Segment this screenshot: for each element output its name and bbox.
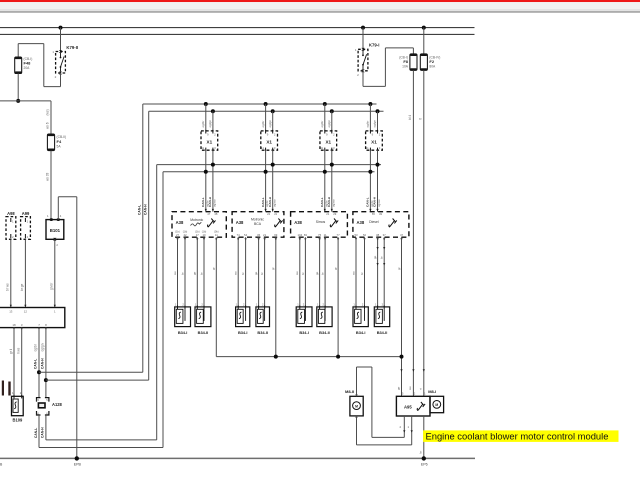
svg-text:A38: A38 — [357, 220, 365, 225]
svg-text:gr: gr — [212, 267, 216, 270]
svg-text:17: 17 — [196, 233, 200, 237]
node: bus tap for K79-II — [59, 26, 63, 30]
svg-text:CAN-L: CAN-L — [320, 197, 324, 207]
svg-text:og/br: og/br — [320, 121, 324, 128]
ground riser x=76.8 — [76, 197, 78, 459]
svg-text:A38: A38 — [176, 220, 184, 225]
svg-text:53: 53 — [354, 233, 358, 237]
wire horizontal feed y=101 — [0, 100, 51, 102]
svg-text:K79-II: K79-II — [66, 45, 78, 50]
svg-text:11: 11 — [261, 146, 264, 150]
svg-text:A38: A38 — [294, 220, 302, 225]
wire F2 down to A95 — [423, 70, 425, 396]
wire down to F4 — [50, 101, 52, 134]
svg-text:br: br — [360, 272, 364, 275]
svg-text:10A: 10A — [402, 65, 409, 69]
svg-text:CAN-H: CAN-H — [268, 196, 272, 207]
svg-text:11: 11 — [324, 233, 327, 237]
node bus tap K79-I — [361, 26, 365, 30]
wire to B34-II pin2 ch1 — [203, 237, 205, 307]
svg-text:og/sw: og/sw — [272, 199, 276, 207]
node rail1 tap ch3 — [323, 102, 327, 106]
svg-text:F4: F4 — [57, 139, 62, 144]
svg-text:ge: ge — [193, 271, 197, 275]
wire horizontal to riser — [44, 86, 61, 88]
node ch4 pin joins bus — [400, 355, 404, 359]
wire B101 pin2 down to module — [54, 239, 56, 307]
svg-text:Diesel: Diesel — [369, 220, 379, 224]
node CAN-L tap — [37, 370, 41, 374]
svg-text:11: 11 — [215, 233, 218, 237]
wire to B34-II pin1 ch1 — [196, 237, 198, 307]
svg-text:A128: A128 — [52, 402, 63, 407]
wires A38 outputs ch2 — [237, 238, 277, 241]
node rail3 tap ch2 — [271, 163, 275, 167]
svg-text:B109: B109 — [13, 418, 24, 423]
svg-text:ge: ge — [373, 255, 377, 259]
svg-text:B101: B101 — [50, 228, 61, 233]
wire rail1 to X1 ch2 — [265, 104, 267, 131]
svg-text:CAN-H: CAN-H — [208, 196, 212, 207]
wire K79-I out routing to F8 — [362, 71, 364, 87]
wire to B34-I pin1 ch1 — [177, 237, 179, 307]
svg-text:br ge: br ge — [20, 284, 24, 291]
glow plug B34-I ch2 — [236, 303, 250, 336]
svg-text:br: br — [260, 272, 264, 275]
svg-text:CAN-L: CAN-L — [137, 205, 141, 215]
wire A128 CAN-H down — [45, 415, 47, 440]
svg-text:br: br — [241, 272, 245, 275]
svg-text:M: M — [355, 404, 358, 408]
svg-text:gr: gr — [271, 267, 275, 270]
node rail1 tap ch4 — [368, 102, 372, 106]
node bus tap F2 — [422, 26, 426, 30]
fuse F2 — [420, 54, 440, 71]
wire to B34-I pin1 ch2 — [237, 237, 239, 307]
glow plug B34-I ch3 — [296, 303, 312, 336]
wire A128 CAN-L down — [38, 415, 40, 448]
svg-text:Simos: Simos — [316, 220, 326, 224]
wire A98 down — [10, 239, 12, 307]
arrows into A95 — [400, 369, 402, 372]
svg-text:77: 77 — [337, 233, 341, 237]
glow plug B34-II ch1 — [195, 303, 211, 336]
ECU A38 ch2 — [232, 212, 284, 238]
node rail3 tap ch1 — [211, 163, 215, 167]
svg-text:br: br — [380, 256, 384, 259]
wire down into F48 — [17, 44, 19, 57]
svg-text:21: 21 — [326, 212, 329, 216]
svg-text:42: 42 — [183, 233, 187, 237]
svg-text:og/sw: og/sw — [377, 199, 381, 207]
control module box (left, clipped) — [0, 305, 65, 331]
svg-text:rt: rt — [419, 388, 423, 390]
svg-text:br: br — [180, 272, 184, 275]
svg-text:80A: 80A — [429, 65, 436, 69]
CAN rail 2 (to X1 connectors) — [149, 110, 384, 112]
wire pin-x down ch1 — [215, 237, 217, 356]
wire to B34-I pin1 ch3 — [299, 237, 301, 307]
wire rail1 to X1 ch4 — [369, 104, 371, 131]
node rail3 tap ch4 — [376, 163, 380, 167]
blower motor M8-II — [345, 389, 363, 418]
svg-text:B34-II: B34-II — [377, 330, 388, 335]
wire A95 to ground — [423, 416, 425, 458]
CAN rail 4 (module side) — [163, 171, 375, 173]
svg-text:A99: A99 — [22, 211, 30, 216]
svg-text:B34-I: B34-I — [238, 330, 248, 335]
blower motor M8-I — [428, 389, 443, 412]
wire to B34-I pin1 ch4 — [355, 237, 357, 307]
svg-text:A98: A98 — [7, 211, 15, 216]
svg-text:104: 104 — [297, 233, 302, 237]
wire pin-x down ch2 — [275, 237, 277, 356]
svg-text:br: br — [321, 272, 325, 275]
svg-text:22: 22 — [267, 212, 270, 216]
svg-text:gr: gr — [397, 267, 401, 270]
svg-text:65: 65 — [372, 212, 375, 216]
svg-text:Engine coolant blower motor co: Engine coolant blower motor control modu… — [426, 431, 609, 442]
highlight label: Engine coolant blower motor control module — [423, 430, 618, 442]
svg-text:CAN-L: CAN-L — [201, 197, 205, 207]
svg-text:og/sw: og/sw — [213, 199, 217, 207]
svg-text:CAN-H: CAN-H — [327, 196, 331, 207]
node ch3 pin joins bus — [336, 355, 340, 359]
svg-text:X1: X1 — [207, 140, 213, 145]
wire CAN-H from module pin8 — [45, 328, 47, 398]
svg-text:X1: X1 — [325, 140, 331, 145]
sensor B109 — [12, 391, 24, 423]
node rail4 tap ch2 — [264, 170, 268, 174]
svg-text:ge: ge — [396, 386, 400, 390]
wire to B34-I pin2 ch1 — [184, 237, 186, 307]
node ground left — [75, 456, 79, 460]
wire F4 to B101 — [50, 151, 52, 220]
wire bus to relay K79-II — [60, 28, 62, 52]
svg-text:EPB: EPB — [74, 462, 82, 466]
wire M8-II return to A95 — [356, 416, 358, 445]
svg-text:Motronic: Motronic — [190, 218, 203, 222]
svg-text:21: 21 — [274, 212, 277, 216]
svg-text:75: 75 — [318, 233, 322, 237]
svg-text:A38: A38 — [236, 220, 244, 225]
wire X1 to A38 right ch3 — [331, 150, 333, 212]
svg-text:rt: rt — [419, 118, 423, 120]
wire K79-II pin2 down — [60, 73, 62, 87]
wire riser up — [43, 44, 45, 87]
svg-text:74: 74 — [237, 233, 241, 237]
svg-text:ws 6: ws 6 — [46, 122, 50, 129]
svg-text:og/gn: og/gn — [373, 120, 377, 128]
wire bus to F2 — [423, 28, 425, 54]
node rail1 tap ch2 — [264, 102, 268, 106]
node ch2 pin joins bus — [274, 355, 278, 359]
svg-text:11: 11 — [201, 146, 204, 150]
wire X1 to A38 left ch4 — [369, 150, 371, 212]
wire to B34-I pin2 ch4 — [364, 237, 366, 307]
node rail2 tap ch4 — [376, 109, 380, 113]
svg-text:og/sw: og/sw — [331, 199, 335, 207]
glow plug B34-II ch3 — [317, 303, 332, 336]
svg-text:52: 52 — [363, 233, 367, 237]
blower control module A95 — [396, 396, 430, 416]
wire X1 to A38 right ch1 — [212, 150, 214, 212]
svg-text:13: 13 — [9, 309, 13, 313]
fuse F48 — [15, 57, 33, 74]
wire A95 to M8-II supply loop — [403, 416, 405, 437]
svg-text:B34-I: B34-I — [178, 330, 188, 335]
wire module pin18 to B109 — [13, 328, 15, 397]
clipped component at left edge — [2, 381, 4, 396]
svg-text:og/gn: og/gn — [41, 343, 45, 351]
wire rail2 to X1 ch4 — [377, 111, 379, 131]
svg-text:CAN-L: CAN-L — [366, 197, 370, 207]
glow plug B34-I ch1 — [175, 303, 191, 336]
svg-text:BCA: BCA — [254, 222, 262, 226]
wire X1 to A38 left ch1 — [205, 150, 207, 212]
ECU A38 ch1 — [172, 212, 226, 238]
svg-text:br: br — [419, 451, 423, 454]
node rail4 tap ch4 — [368, 170, 372, 174]
connector X1 ch1 — [201, 130, 218, 151]
svg-text:37: 37 — [383, 233, 387, 237]
svg-text:M8-II: M8-II — [345, 389, 354, 394]
svg-text:og/br: og/br — [366, 121, 370, 128]
wire to B34-II pin2 ch4 — [383, 237, 385, 307]
wire rail1 to X1 ch3 — [324, 104, 326, 131]
window top red border bar — [0, 0, 640, 2]
svg-text:47: 47 — [400, 233, 404, 237]
wire bus to K79-I — [362, 28, 364, 50]
node rail1 tap ch1 — [204, 102, 208, 106]
connector X1 ch3 — [320, 130, 337, 151]
svg-text:M: M — [435, 403, 438, 407]
svg-text:bl 4: bl 4 — [408, 115, 412, 120]
svg-text:Motronic: Motronic — [251, 218, 264, 222]
CAN rail 4 return leg — [162, 172, 164, 448]
wire X1 to A38 right ch2 — [272, 150, 274, 212]
wire pin-x down ch4 — [401, 237, 403, 396]
svg-text:11: 11 — [320, 146, 323, 150]
connector X1 ch4 — [366, 130, 383, 151]
glow plug B34-I ch4 — [353, 303, 368, 336]
svg-text:og/gn: og/gn — [327, 120, 331, 128]
svg-text:83: 83 — [304, 233, 308, 237]
glow plug B34-II ch2 — [256, 303, 270, 336]
ECU A38 ch4 — [353, 212, 409, 238]
svg-text:X1: X1 — [371, 140, 377, 145]
connector X1 ch2 — [261, 130, 278, 151]
svg-text:(ws): (ws) — [46, 109, 50, 115]
svg-text:B34-II: B34-II — [319, 330, 330, 335]
svg-text:29: 29 — [333, 212, 336, 216]
svg-text:B34-II: B34-II — [257, 330, 268, 335]
svg-text:gr li: gr li — [9, 349, 13, 354]
wire rail2 to X1 ch2 — [272, 111, 274, 131]
svg-text:47: 47 — [207, 212, 210, 216]
svg-text:gn br: gn br — [50, 282, 54, 290]
wire rail1 to X1 ch1 — [205, 104, 207, 131]
CAN rail 3 return leg — [156, 165, 158, 440]
node rail4 tap ch3 — [323, 170, 327, 174]
svg-text:11: 11 — [366, 146, 369, 150]
node rail3 tap ch3 — [330, 163, 334, 167]
svg-text:br ws: br ws — [6, 283, 10, 291]
CAN rail 1 (to X1 connectors) — [143, 103, 377, 105]
CAN rail 3 (module side) — [157, 164, 381, 166]
node rail2 tap ch1 — [211, 109, 215, 113]
wire to B34-II pin1 ch3 — [319, 237, 321, 307]
bus line 2 (15 rail) — [0, 33, 475, 35]
wire X1 to A38 left ch3 — [324, 150, 326, 212]
svg-text:10: 10 — [202, 233, 206, 237]
connector A99 — [21, 211, 31, 239]
wire X1 to A38 left ch2 — [265, 150, 267, 212]
svg-text:12: 12 — [24, 309, 28, 313]
svg-text:X1: X1 — [266, 140, 272, 145]
svg-text:li ws: li ws — [17, 347, 21, 354]
node rail2 tap ch3 — [330, 109, 334, 113]
svg-text:og/br: og/br — [34, 343, 38, 351]
wire rail2 to X1 ch1 — [212, 111, 214, 131]
wire to B34-I pin2 ch2 — [245, 237, 247, 307]
svg-text:og/gn: og/gn — [208, 120, 212, 128]
svg-text:og/br: og/br — [261, 121, 265, 128]
fuse F8 — [399, 54, 417, 71]
svg-text:36: 36 — [257, 233, 261, 237]
fuse F4 — [47, 134, 66, 151]
svg-text:og/gn: og/gn — [268, 120, 272, 128]
wire to B34-I pin2 ch3 — [304, 237, 306, 307]
svg-text:21: 21 — [263, 233, 267, 237]
bus line 1 (30 rail) — [0, 27, 475, 29]
wire horizontal to F48 — [18, 43, 44, 45]
wire X1 to A38 right ch4 — [377, 150, 379, 212]
node ground right — [422, 456, 426, 460]
svg-text:B34-II: B34-II — [198, 330, 209, 335]
wire CAN-L from module pin7 — [38, 328, 40, 398]
wire rail2 to X1 ch3 — [331, 111, 333, 131]
svg-text:ge: ge — [315, 271, 319, 275]
CAN-H feed to X1 rail — [46, 379, 149, 381]
CAN-L feed to X1 rail — [39, 371, 143, 373]
wires A38 outputs ch1 — [176, 238, 217, 241]
svg-text:48: 48 — [214, 212, 217, 216]
svg-text:49: 49 — [379, 212, 382, 216]
svg-text:EP6: EP6 — [421, 462, 428, 466]
svg-text:CAN-L: CAN-L — [34, 428, 38, 438]
glow plug B34-II ch4 — [374, 303, 389, 336]
relay K79-II — [52, 45, 78, 79]
bus of A38 control pins y=356.6 — [216, 356, 401, 358]
wire to B34-II pin2 ch3 — [324, 237, 326, 307]
svg-text:gr: gr — [334, 267, 338, 270]
node rail4 tap ch1 — [204, 170, 208, 174]
wire pin-x down ch3 — [337, 237, 339, 356]
svg-text:B34-I: B34-I — [299, 330, 309, 335]
wire F8 down to A95 — [412, 70, 414, 396]
svg-text:CAN-H: CAN-H — [373, 196, 377, 207]
connector A98 — [6, 211, 16, 239]
svg-text:K79-I: K79-I — [369, 43, 380, 48]
wire to B34-II pin1 ch2 — [258, 237, 260, 307]
arrows at A95 bottom pins — [403, 430, 405, 433]
gateway A128 — [36, 398, 63, 416]
svg-text:br: br — [301, 272, 305, 275]
wire B101 loop to ground riser — [57, 197, 59, 220]
wires A38 outputs ch3 — [299, 238, 340, 241]
svg-text:B34-I: B34-I — [356, 330, 366, 335]
svg-text:54: 54 — [244, 233, 248, 237]
ECU A38 ch3 — [291, 212, 348, 238]
wire to B34-II pin2 ch2 — [264, 237, 266, 307]
wire module pin3 to B109 — [21, 328, 23, 397]
svg-text:38: 38 — [376, 233, 380, 237]
svg-text:CAN-H: CAN-H — [143, 204, 147, 215]
window gray toolbar bar — [0, 2, 640, 11]
svg-text:20A: 20A — [24, 66, 31, 70]
relay K79-I — [355, 43, 380, 77]
node CAN-H tap — [44, 378, 48, 382]
svg-text:CAN-H: CAN-H — [41, 358, 45, 369]
svg-text:M8-I: M8-I — [428, 389, 436, 394]
svg-text:ge: ge — [254, 271, 258, 275]
ground rail — [0, 457, 475, 459]
svg-text:CAN-L: CAN-L — [261, 197, 265, 207]
svg-text:A95: A95 — [404, 404, 412, 409]
svg-text:og/br: og/br — [201, 121, 205, 128]
junction box B101 — [46, 214, 64, 247]
node rail2 tap ch2 — [271, 109, 275, 113]
svg-text:F8: F8 — [403, 59, 408, 64]
svg-text:18: 18 — [12, 323, 16, 327]
svg-text:CAN-H: CAN-H — [41, 427, 45, 438]
svg-text:F2: F2 — [429, 59, 434, 64]
svg-text:br: br — [199, 272, 203, 275]
wires A38 outputs ch4 — [355, 238, 403, 241]
svg-text:27: 27 — [176, 233, 180, 237]
wire F48 to node — [17, 74, 19, 101]
wire A99 down — [24, 239, 26, 307]
svg-text:ws 33: ws 33 — [46, 172, 50, 181]
svg-text:F48: F48 — [24, 61, 32, 66]
wire to B34-II pin1 ch4 — [377, 237, 379, 307]
svg-text:CAN-L: CAN-L — [34, 359, 38, 369]
svg-text:69: 69 — [274, 233, 278, 237]
node F48 output — [16, 99, 20, 103]
